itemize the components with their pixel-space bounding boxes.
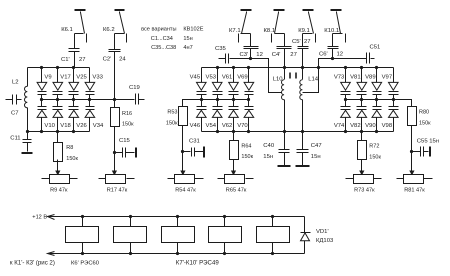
wire K6.2 contact to capacitor [115,33,125,35]
relay coil К8' [162,227,195,243]
junction bottom bus [40,130,43,133]
svg-text:С6': С6' [319,52,328,58]
svg-text:V74: V74 [334,123,345,129]
relay contact K7.1 armature bar [241,9,252,11]
svg-text:V9: V9 [44,75,51,81]
svg-text:VD1': VD1' [316,229,329,235]
svg-text:12: 12 [337,52,344,58]
junction C3'/C35 [249,57,252,60]
varicap diode V54 [217,100,219,107]
capacitor C7 [6,99,13,101]
svg-text:С51: С51 [370,45,381,51]
relay coil К9' [209,227,242,243]
junction middle bus [56,98,59,101]
capacitor C11 [27,132,29,140]
wire R16 top [114,100,116,108]
svg-text:С35...С38: С35...С38 [151,45,176,51]
relay contact K8.1 fixed contact [271,34,273,43]
wire stem to varicap [361,68,363,83]
svg-text:12: 12 [256,52,263,58]
resistor R64 150k [230,141,239,160]
svg-text:15н: 15н [311,154,321,160]
junction middle bus [392,98,395,101]
wire right middle bus with R80 corner [346,100,412,107]
resistor R16 150k [111,108,120,127]
svg-text:L2: L2 [12,80,19,86]
svg-text:L14: L14 [308,76,319,82]
wire C4' to top bus [284,49,286,68]
relay contact K6.2 fixed contact [126,34,128,43]
junction +12V rail К9' [223,215,226,218]
wire stem to varicap [57,68,59,83]
wire K6.1 contact to capacitor [75,33,84,35]
capacitor C35 [219,58,226,60]
wire К10' coil bottom stem [272,243,274,254]
svg-text:V97: V97 [382,75,392,81]
wire C1' top [74,34,76,49]
junction bottom bus [56,130,59,133]
wire stem to varicap [217,68,219,83]
wire К7' coil bottom stem [130,243,132,254]
svg-text:К7'-К10' РЭС49: К7'-К10' РЭС49 [176,259,220,266]
relay contact K9.1 armature bar [303,9,314,11]
trimmer R81 body [404,175,424,184]
inductor L10 winding [282,80,285,100]
wire R65 right lead [246,178,254,180]
wire R54 left lead [168,178,175,180]
varicap diode V33 [85,82,95,90]
svg-text:С7: С7 [11,111,19,117]
svg-text:С35: С35 [215,46,227,52]
relay contact K6.1 fixed contact [86,34,88,43]
wire R16 to R17 [114,127,116,160]
wire R9 left lead [42,178,50,180]
svg-text:к К1'- К3' (рис 2): к К1'- К3' (рис 2) [10,260,55,267]
varicap diode V89 [372,82,382,90]
svg-text:150к: 150к [66,156,78,162]
svg-text:все варианты: все варианты [141,27,176,33]
wire left matrix bottom bus [28,131,90,133]
svg-text:15н: 15н [183,36,192,42]
wire varicap to bottom bus [376,118,378,132]
relay contact K10.1 fixed contact [345,34,347,43]
relay contact K10.1 armature bar [331,9,342,11]
svg-text:КД103: КД103 [316,238,334,244]
wire varicap to bottom bus [233,118,235,132]
wire К6' coil bottom stem [82,243,84,254]
relay coil К6' [66,227,99,243]
junction C31 [181,150,184,153]
chassis bar C11 [22,152,33,154]
junction bottom bus [360,130,363,133]
svg-text:R16: R16 [122,111,132,117]
varicap diode V34 [89,100,91,107]
junction L14/C5' top [301,66,304,69]
svg-text:4н7: 4н7 [183,45,192,51]
wire R81 right lead [424,178,433,180]
svg-text:R53: R53 [167,110,177,116]
junction top bus [360,66,363,69]
junction top bus [375,66,378,69]
svg-text:V18: V18 [60,123,71,129]
trimmer R17 body [106,175,126,184]
svg-text:V62: V62 [222,123,232,129]
svg-text:С40: С40 [263,143,275,149]
junction top bus [247,66,250,69]
junction bottom bus L2/C11 [26,130,29,133]
resistor R80 150k [408,107,417,126]
capacitor C2' [109,49,121,51]
varicap diode V82 [361,100,363,107]
wire C5' top [302,34,304,47]
capacitor C19 [115,99,135,101]
svg-text:К7.1: К7.1 [229,28,241,34]
varicap diode V73 [341,82,351,90]
relay contact K6.2 blade [120,12,125,34]
wire varicap to bottom bus [57,118,59,132]
svg-text:V81: V81 [350,75,360,81]
wire К8' coil bottom stem [177,243,179,254]
varicap diode V18 [57,100,59,107]
junction L10 bottom [283,130,286,133]
svg-text:V45: V45 [190,75,201,81]
svg-text:С47: С47 [311,143,322,149]
junction middle bus [344,98,347,101]
junction top bus [232,66,235,69]
trimmer R9 wiper arrow [57,160,59,172]
chassis bar C15 [135,148,137,158]
junction bottom bus [375,130,378,133]
arrow +12V rail [48,215,55,220]
capacitor C55 [412,151,421,153]
varicap diode V45 [197,82,207,90]
svg-text:С31: С31 [189,139,200,145]
varicap diode V61 [229,82,239,90]
capacitor C15 [115,152,123,154]
wire stem to varicap [248,68,250,83]
svg-text:150к: 150к [166,120,178,126]
junction C15 [113,151,116,154]
capacitor C1' [69,48,80,50]
svg-text:24: 24 [119,57,126,63]
svg-text:V10: V10 [44,123,55,129]
wire mid middle bus with R53 corner [183,100,249,107]
wire R8 top [57,132,59,143]
svg-text:150к: 150к [369,154,381,160]
capacitor C4' [277,46,292,48]
varicap diode V10 [41,100,43,107]
svg-text:R17 47к: R17 47к [107,188,128,194]
svg-text:V89: V89 [365,75,375,81]
resistor R8 150k [54,143,63,162]
varicap diode V62 [233,100,235,107]
varicap diode V98 [393,100,395,107]
arrow to K1'-K3' [48,252,55,256]
varicap diode V70 [248,100,250,107]
wire stem V45 corner [201,68,203,83]
trimmer R73 body [354,175,374,184]
svg-text:R73 47к: R73 47к [354,188,375,194]
varicap diode V81 [357,82,367,90]
wire R73 left lead [346,178,354,180]
svg-text:К9.1: К9.1 [298,28,310,34]
wire varicap to bottom bus [73,118,75,132]
capacitor C11 [23,139,32,141]
chassis bar C31 [203,147,205,158]
capacitor C51 [333,58,367,60]
relay coil К10' [257,227,290,243]
varicap diode V9 [37,82,47,90]
svg-text:V17: V17 [60,75,70,81]
relay contact K9.1 blade [309,12,314,34]
junction bottom rail К6' [81,252,84,255]
svg-text:R64: R64 [241,143,251,149]
junction top bus C1'/V25 [72,66,75,69]
wire C2' down to middle bus [114,52,116,100]
junction top bus [216,66,219,69]
svg-text:27: 27 [290,52,297,58]
svg-text:V82: V82 [350,123,360,129]
svg-text:R72: R72 [369,144,379,150]
wire R73 right lead [374,178,382,180]
trimmer R54 body [175,175,195,184]
svg-text:С5': С5' [292,39,301,45]
wire C3' top [250,34,252,47]
wire stem V97 corner [393,68,395,83]
svg-text:К6.2: К6.2 [103,27,115,33]
svg-text:С1': С1' [61,57,70,63]
svg-text:V26: V26 [76,123,87,129]
wire К7' coil top stem [130,217,132,227]
relay contact K6.1 armature bar [75,9,86,11]
junction middle bus R16/C2'/C19 [113,98,116,101]
relay contact K8.1 blade [275,12,279,34]
wire C2' top [114,34,116,50]
relay coil К7' [114,227,147,243]
wire R65 left lead [218,178,225,180]
wire varicap to bottom bus [217,118,219,132]
svg-text:+12 В: +12 В [32,214,47,220]
relay contact K8.1 armature bar [274,9,285,11]
svg-text:R65 47к: R65 47к [226,188,247,194]
chassis bar C55 [429,147,431,157]
svg-text:V90: V90 [365,123,376,129]
wire left matrix middle bus [42,99,115,101]
trimmer R9 body [50,175,70,184]
capacitor C6' [328,46,339,48]
svg-text:V70: V70 [237,123,248,129]
svg-text:V61: V61 [222,75,232,81]
wire stem to varicap [73,68,75,83]
inductor L14 bottom wire [302,100,304,132]
varicap diode V53 [212,82,222,90]
junction middle bus [40,98,43,101]
wire varicap to bottom bus [41,118,43,132]
wire R9 right lead [70,178,78,180]
wire varicap to bottom bus [89,118,91,132]
wire mid/right bottom bus [202,131,394,133]
junction bottom bus [232,130,235,133]
junction bottom rail К10' [271,252,274,255]
capacitor C40 [279,149,290,151]
svg-text:К8.1: К8.1 [264,28,276,34]
wire C3' junction to L10 tap [251,59,282,93]
varicap diode V69 [244,82,254,90]
wire C1' to top bus [74,52,76,68]
junction L14 bottom [301,130,304,133]
wire stem V33 [89,68,91,83]
junction middle bus [88,98,91,101]
svg-text:КВ102Е: КВ102Е [183,27,203,33]
wire C6' top [332,34,334,47]
svg-text:150к: 150к [122,122,134,128]
wire varicap to bottom bus [201,118,203,132]
svg-text:V69: V69 [237,75,247,81]
wire stem to varicap [376,68,378,83]
wire C5' to top bus [302,49,304,68]
junction L10/C4' top [283,66,286,69]
wire stem to varicap [41,68,43,83]
wire К8' coil top stem [177,217,179,227]
wire stem to varicap [345,68,347,83]
wire K9.1 contact to capacitor [303,33,313,35]
inductor L10 top wire [284,68,286,80]
wire R54 right lead [195,178,204,180]
trimmer R17 wiper arrow [114,160,116,172]
wire К9' coil top stem [224,217,226,227]
svg-text:15н: 15н [263,154,273,160]
chassis bar C40 [278,165,291,167]
wire C6' to junction [332,49,334,59]
svg-text:V46: V46 [190,123,201,129]
svg-text:V98: V98 [382,123,393,129]
transformer core bar 2 [295,73,297,79]
varicap diode V74 [345,100,347,107]
junction C6'/C51 [331,57,334,60]
wire К6' coil top stem [82,217,84,227]
wire K10.1 contact to capacitor [333,33,343,35]
junction top bus V9 [40,66,43,69]
resistor R72 150k [358,141,367,160]
inductor L10 bottom wire [284,100,286,132]
inductor L2 bottom wire [27,108,29,132]
wire К9' coil bottom stem [224,243,226,254]
varicap diode V25 [69,82,79,90]
junction +12V rail К8' [176,215,179,218]
svg-text:С4': С4' [272,52,281,58]
relay contact K9.1 fixed contact [315,34,317,43]
wire C6' junction to L14 tap [303,59,333,93]
svg-text:150к: 150к [241,154,253,160]
inductor L2 top wire [27,68,29,87]
svg-text:R54 47к: R54 47к [175,188,196,194]
wire R17 right lead [127,178,135,180]
junction +12V rail К6' [81,215,84,218]
wire R72 top [361,132,363,141]
wire +12V rail [48,216,305,218]
wire VD1' branch bottom [304,241,306,254]
wire R17 left lead [99,178,106,180]
svg-text:С19: С19 [129,85,140,91]
junction bottom bus [344,130,347,133]
svg-text:V33: V33 [92,75,103,81]
junction middle bus [200,98,203,101]
relay contact K6.1 blade [81,12,85,34]
trimmer R54 wiper arrow [182,160,184,172]
svg-text:С2': С2' [103,57,112,63]
trimmer R81 wiper arrow [411,160,413,172]
junction bottom bus [72,130,75,133]
wire left matrix top bus [28,67,90,69]
svg-text:R80: R80 [419,110,429,116]
wire K7.1 contact to capacitor [241,33,251,35]
svg-text:С15: С15 [119,138,131,144]
wire K8.1 contact to capacitor [275,33,285,35]
junction +12V rail К7' [129,215,132,218]
junction bottom rail К8' [176,252,179,255]
svg-text:С1...С34: С1...С34 [151,36,173,42]
varicap diode V46 [201,100,203,107]
capacitor C3' [244,46,259,48]
varicap diode V97 [389,82,399,90]
wire R81 left lead [397,178,404,180]
capacitor C31 [183,151,191,153]
svg-text:L10: L10 [273,76,284,82]
wire VD1' branch top [304,217,306,233]
svg-text:V53: V53 [206,75,217,81]
trimmer R73 wiper arrow [361,160,363,172]
wire mid/right top bus [202,67,394,69]
wire R53 to R54 [182,126,184,160]
wire stem to varicap [233,68,235,83]
varicap diode V17 [53,82,63,90]
trimmer R65 wiper arrow [233,160,235,172]
resistor R53 150k [179,107,188,126]
wire C3' to junction [250,49,252,59]
transformer core bar 1 [289,73,291,79]
junction middle bus [72,98,75,101]
junction top bus V17 [56,66,59,69]
svg-text:V34: V34 [93,123,104,129]
chassis bar C47 [296,165,310,167]
diode VD1' [301,232,311,234]
inductor L2 winding [24,86,27,108]
inductor L14 top wire [302,68,304,80]
wire К10' coil top stem [272,217,274,227]
svg-text:150к: 150к [419,120,431,126]
wire bottom control rail [48,253,305,255]
junction middle bus [232,98,235,101]
wire R80 to R81 [411,126,413,160]
junction middle bus [360,98,363,101]
junction middle bus [247,98,250,101]
svg-text:27: 27 [79,57,86,63]
relay contact K6.2 armature bar [115,9,125,11]
svg-text:R81 47к: R81 47к [404,188,425,194]
capacitor C47 [297,149,309,151]
relay contact K10.1 blade [337,12,341,34]
svg-text:К10.1: К10.1 [324,28,339,34]
capacitor C5' [298,46,309,48]
wire varicap to bottom bus [361,118,363,132]
relay contact K7.1 fixed contact [238,34,240,43]
capacitor C40 [284,132,286,150]
wire varicap to bottom bus [345,118,347,132]
junction bottom bus [247,130,250,133]
svg-text:V54: V54 [206,123,217,129]
trimmer R65 body [225,175,245,184]
svg-text:С3': С3' [240,52,249,58]
